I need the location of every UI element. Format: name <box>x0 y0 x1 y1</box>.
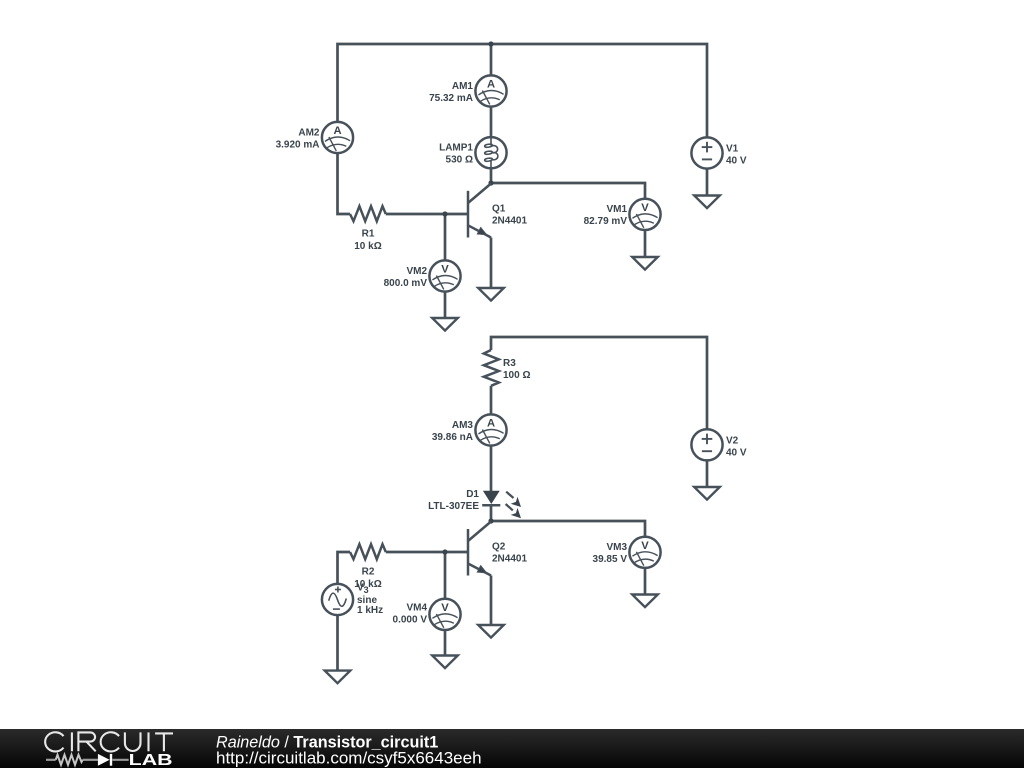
voltmeter VM3 <box>593 537 661 568</box>
ground under Q1 emitter <box>478 288 504 301</box>
wire AM2 to R1 <box>338 153 351 214</box>
svg-text:VM2: VM2 <box>406 266 427 277</box>
ammeter AM3 <box>432 414 507 445</box>
wire top rail circuit 1 <box>338 44 708 137</box>
voltage source V1 <box>691 137 747 168</box>
svg-text:V: V <box>641 540 649 552</box>
ground under VM2 <box>432 318 458 331</box>
svg-text:40 V: 40 V <box>726 448 747 459</box>
svg-text:2N4401: 2N4401 <box>492 216 527 227</box>
wire V2 to ground <box>706 460 709 487</box>
svg-text:LTL-307EE: LTL-307EE <box>428 501 479 512</box>
junction node Q2 base <box>442 549 447 554</box>
AC source V3 <box>322 583 383 617</box>
lamp LAMP1 <box>439 137 507 168</box>
wire R3 to AM3 <box>490 386 493 415</box>
logo resistor-diode line <box>46 755 129 765</box>
svg-text:1 kHz: 1 kHz <box>357 605 383 616</box>
svg-text:VM4: VM4 <box>406 603 427 614</box>
svg-text:82.79 mV: 82.79 mV <box>584 216 628 227</box>
wire top rail circuit 2 <box>491 337 707 429</box>
resistor R2 <box>350 544 386 590</box>
logo CIRCUIT <box>45 732 173 751</box>
wire LAMP1 to collector node <box>490 168 493 183</box>
wire base node to VM2 <box>444 214 447 260</box>
svg-text:VM1: VM1 <box>606 204 627 215</box>
svg-text:LAMP1: LAMP1 <box>439 143 473 154</box>
svg-text:LAB: LAB <box>129 752 173 768</box>
svg-text:100 Ω: 100 Ω <box>503 370 530 381</box>
svg-text:39.86 nA: 39.86 nA <box>432 432 473 443</box>
svg-text:D1: D1 <box>466 489 479 500</box>
ground under VM3 <box>632 595 658 608</box>
ground under V2 <box>694 487 720 500</box>
svg-text:A: A <box>487 418 495 430</box>
ground under V3 <box>325 671 351 684</box>
svg-text:VM3: VM3 <box>606 542 627 553</box>
junction node D1 cathode <box>488 518 493 523</box>
wire R2 to Q2 base <box>386 551 468 554</box>
wire base node to VM4 <box>444 552 447 599</box>
svg-text:V: V <box>441 602 449 614</box>
svg-text:75.32 mA: 75.32 mA <box>429 93 473 104</box>
svg-text:AM1: AM1 <box>452 81 474 92</box>
ground under Q2 emitter <box>478 625 504 638</box>
svg-text:Q2: Q2 <box>492 542 506 553</box>
wire node to VM1 <box>491 183 645 199</box>
resistor R1 <box>350 206 386 252</box>
svg-text:http://circuitlab.com/csyf5x66: http://circuitlab.com/csyf5x6643eeh <box>216 749 482 768</box>
wire Q1 emitter to ground <box>490 238 493 289</box>
wire center drop to AM1 <box>490 44 493 75</box>
svg-text:V2: V2 <box>726 436 739 447</box>
svg-text:530 Ω: 530 Ω <box>446 155 473 166</box>
svg-text:A: A <box>487 79 495 91</box>
wire V1 to ground <box>706 169 709 196</box>
wire AM1 to LAMP1 <box>490 107 493 138</box>
svg-text:3.920 mA: 3.920 mA <box>276 140 320 151</box>
svg-text:AM2: AM2 <box>298 128 320 139</box>
svg-text:AM3: AM3 <box>452 420 474 431</box>
logo diode <box>98 754 110 766</box>
voltmeter VM2 <box>384 260 461 291</box>
wire VM2 to ground <box>444 292 447 318</box>
wire D1 to collector node <box>490 505 493 521</box>
svg-text:Q1: Q1 <box>492 204 506 215</box>
wire R2 to V3 <box>338 552 351 584</box>
junction node collector <box>488 180 493 185</box>
svg-text:A: A <box>333 125 341 137</box>
junction node base <box>442 211 447 216</box>
wire R1 to Q1 base <box>386 213 468 216</box>
ammeter AM2 <box>276 122 354 153</box>
ground under VM4 <box>432 656 458 669</box>
voltmeter VM1 <box>584 199 661 230</box>
transistor Q2 <box>468 522 527 576</box>
svg-text:R2: R2 <box>362 567 375 578</box>
svg-text:39.85 V: 39.85 V <box>593 554 628 565</box>
svg-text:V3: V3 <box>357 583 369 596</box>
svg-text:V1: V1 <box>726 144 739 155</box>
LED D1 <box>428 489 521 518</box>
wire VM1 to ground <box>644 230 647 257</box>
svg-text:R1: R1 <box>362 229 375 240</box>
voltage source V2 <box>691 429 747 460</box>
svg-text:10 kΩ: 10 kΩ <box>354 241 381 252</box>
junction node top rail <box>488 41 493 46</box>
wire VM3 to ground <box>644 568 647 595</box>
resistor R3 <box>484 350 531 386</box>
svg-text:V: V <box>441 264 449 276</box>
wire AM3 to D1 <box>490 446 493 491</box>
svg-text:800.0 mV: 800.0 mV <box>384 278 428 289</box>
svg-text:R3: R3 <box>503 358 516 369</box>
svg-text:40 V: 40 V <box>726 156 747 167</box>
svg-text:2N4401: 2N4401 <box>492 554 527 565</box>
wire node to VM3 <box>491 521 645 537</box>
transistor Q1 <box>468 184 527 238</box>
svg-text:V: V <box>641 202 649 214</box>
ground under V1 <box>694 196 720 209</box>
wire VM4 to ground <box>444 630 447 656</box>
wire V3 to ground <box>336 615 339 671</box>
ground under VM1 <box>632 257 658 270</box>
svg-text:0.000 V: 0.000 V <box>393 615 428 626</box>
ammeter AM1 <box>429 75 507 106</box>
voltmeter VM4 <box>393 599 461 630</box>
wire Q2 emitter to ground <box>490 576 493 626</box>
